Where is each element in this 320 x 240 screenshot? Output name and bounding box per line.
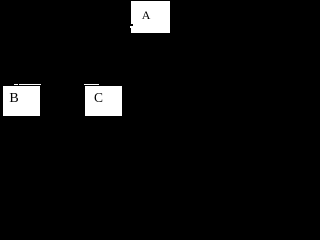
node C box [85,86,122,116]
node B label [9,91,18,107]
arrowhead into node A (black tip over box) [131,24,133,26]
edge segment above node B (right part) [19,84,42,85]
node A box [131,1,170,33]
node C label [94,90,103,106]
edge segment above node C [84,84,99,85]
node B box [3,86,40,116]
node A label [142,8,151,23]
arrowhead into node A (white fragment on background) [130,26,132,28]
edge segment above node B (left part) [14,84,18,85]
